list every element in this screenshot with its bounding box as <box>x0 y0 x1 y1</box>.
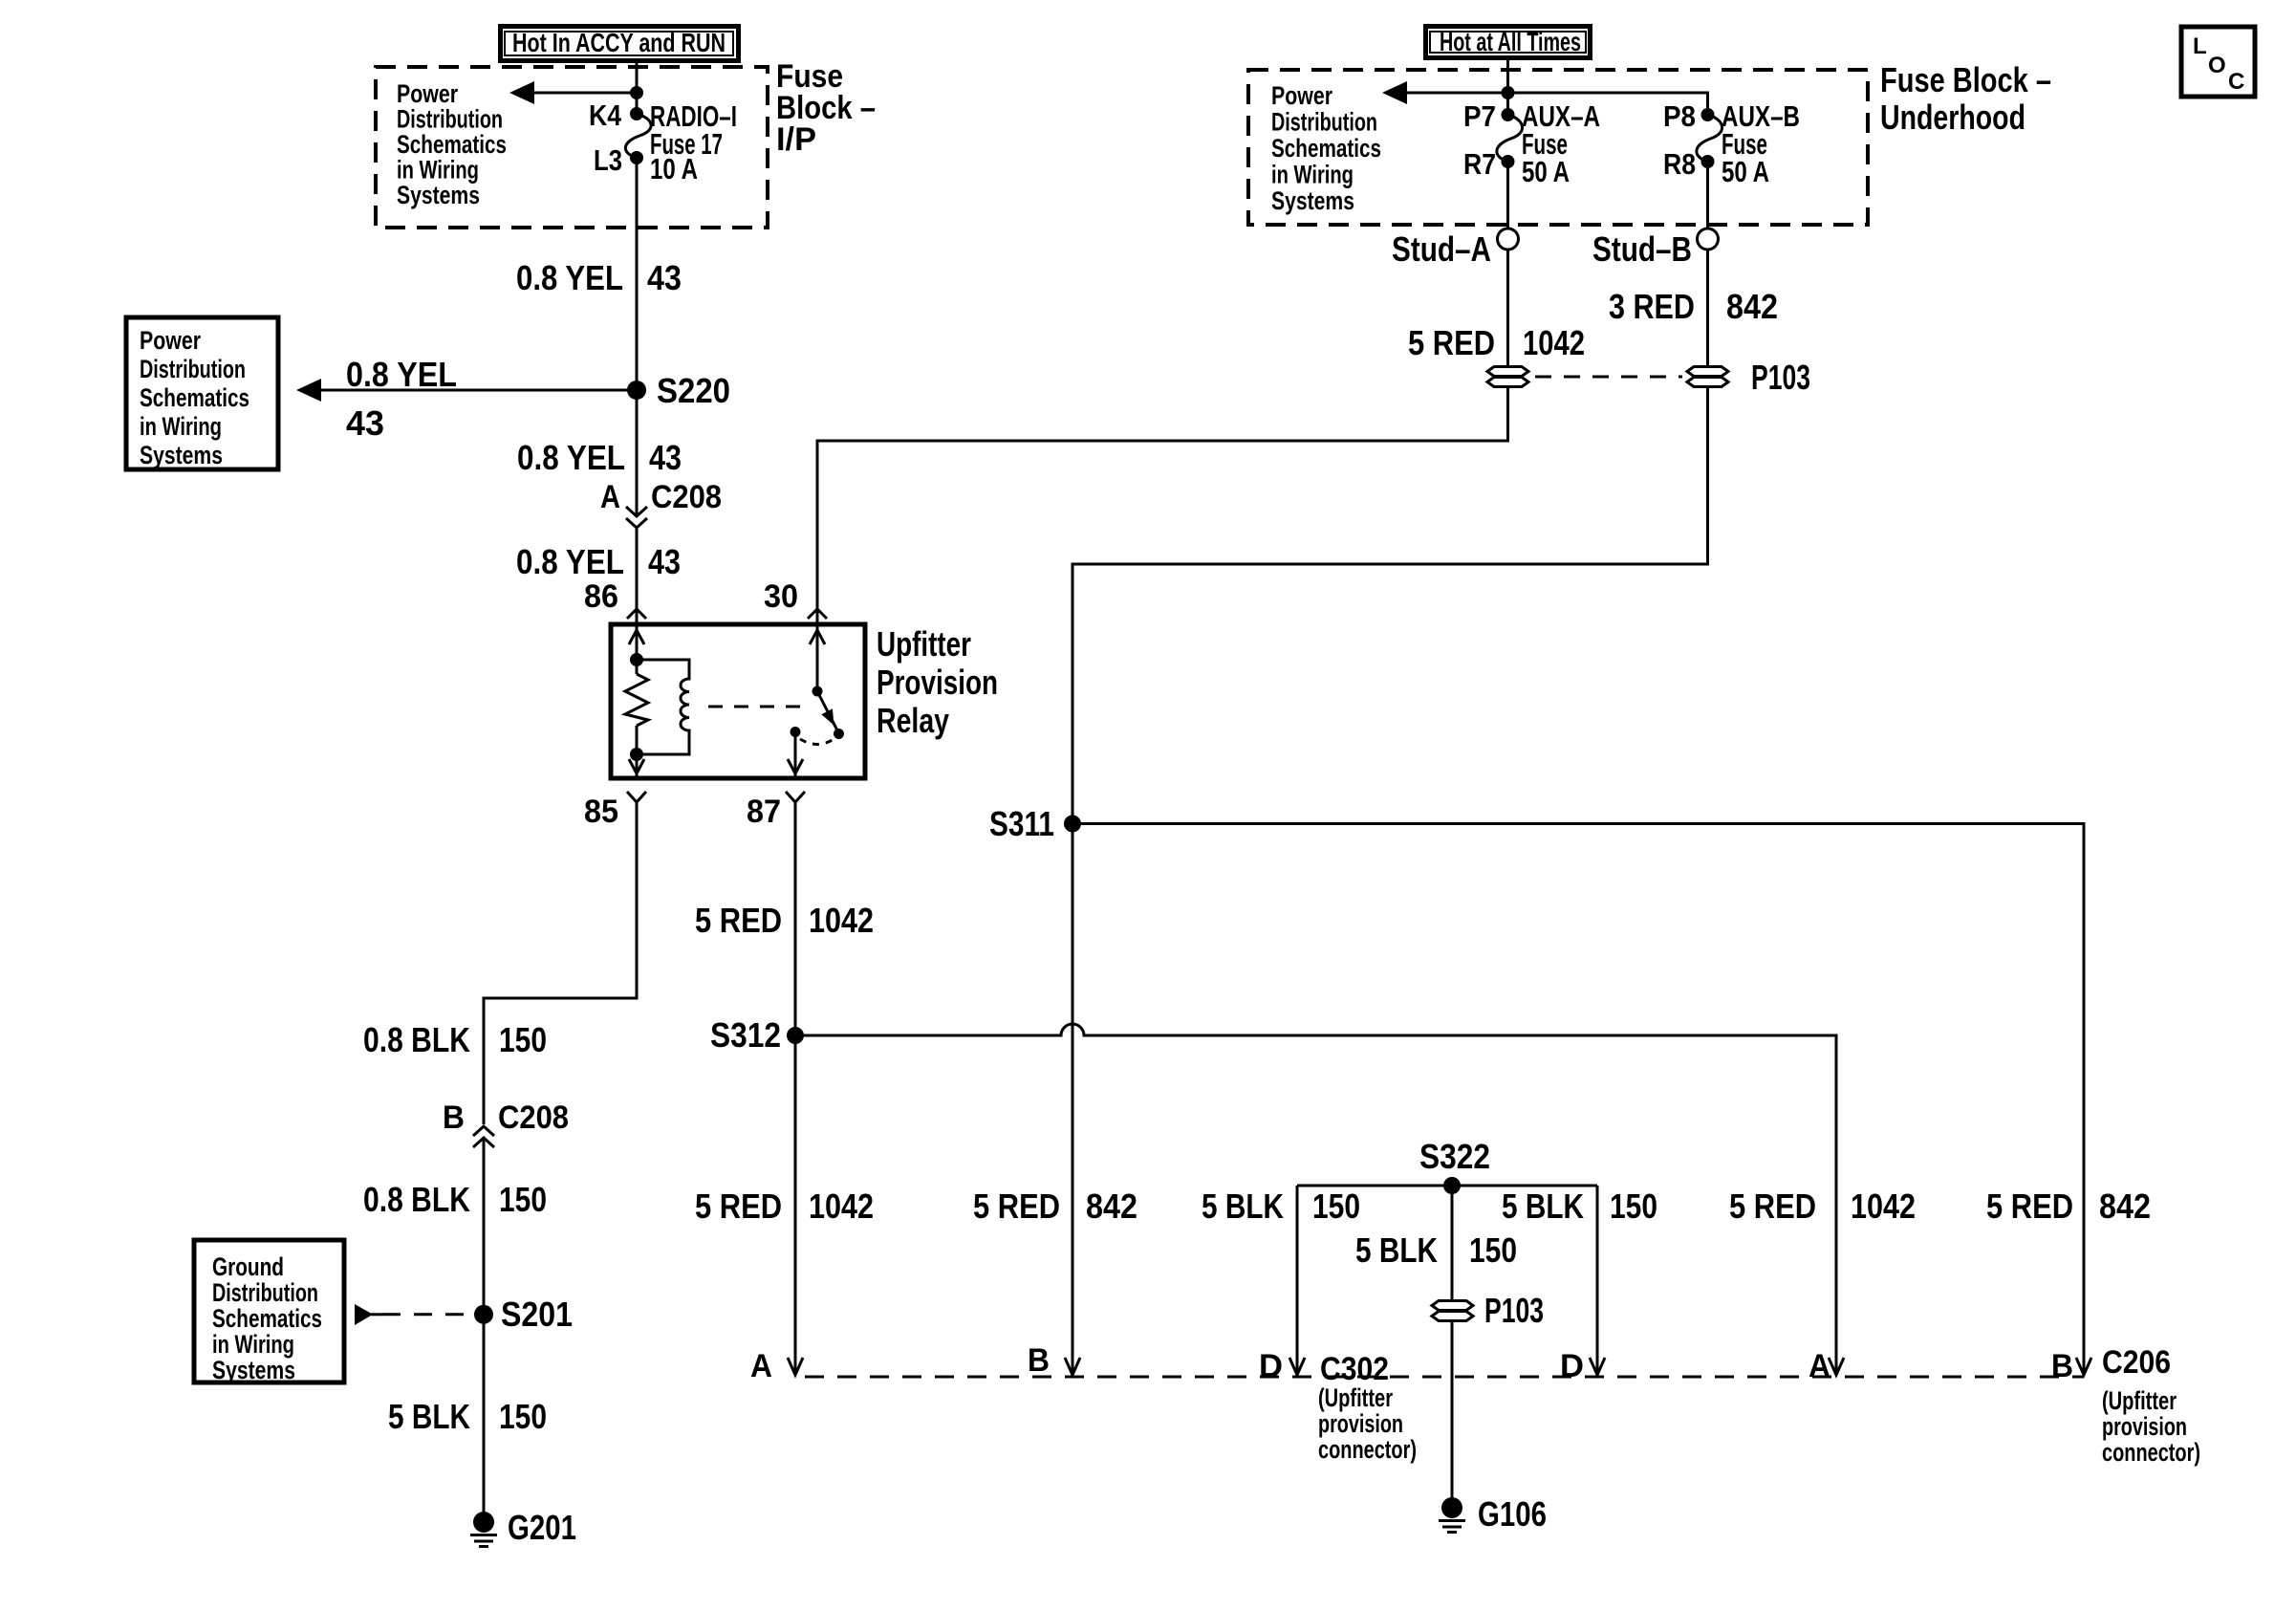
wire 5 RED 1042 from S312 to C302 pin A <box>794 1035 797 1373</box>
svg-text:842: 842 <box>1086 1186 1137 1226</box>
svg-text:C208: C208 <box>498 1099 569 1136</box>
svg-text:Stud–B: Stud–B <box>1592 229 1692 269</box>
svg-text:I/P: I/P <box>776 121 816 158</box>
pin 86 connector chevron <box>627 609 646 619</box>
node S322 <box>1443 1177 1461 1194</box>
grommet P103 (bottom) <box>1432 1301 1473 1321</box>
wire arrow to power distribution (internal) <box>531 92 637 95</box>
svg-text:3 RED: 3 RED <box>1609 287 1695 326</box>
terminal Stud-B <box>1706 162 1709 229</box>
svg-text:R8: R8 <box>1663 147 1696 181</box>
svg-text:A: A <box>600 479 620 515</box>
ground G201 <box>470 1508 576 1547</box>
wire S322 ground tee <box>1297 1185 1597 1187</box>
node junction dot at arrow takeoff <box>1502 86 1515 99</box>
svg-text:P8: P8 <box>1663 99 1696 133</box>
svg-text:1042: 1042 <box>809 1186 874 1226</box>
wire from Hot at All Times down <box>1506 58 1509 115</box>
svg-text:842: 842 <box>2099 1186 2151 1226</box>
grommet P103 (left half) <box>1487 367 1528 387</box>
node S220 <box>627 381 646 400</box>
svg-text:P103: P103 <box>1751 358 1810 397</box>
wire P103 left down to relay pin 30 <box>817 388 1508 624</box>
svg-text:86: 86 <box>584 578 618 615</box>
wire arrow to power distribution (internal, underhood) <box>1404 92 1508 95</box>
svg-text:S312: S312 <box>710 1015 781 1055</box>
svg-text:Systems: Systems <box>397 181 480 209</box>
svg-text:5 BLK: 5 BLK <box>1202 1186 1284 1226</box>
svg-text:Hot at All Times: Hot at All Times <box>1440 27 1581 56</box>
svg-text:43: 43 <box>648 542 681 581</box>
svg-text:5 RED: 5 RED <box>973 1186 1060 1226</box>
svg-text:50 A: 50 A <box>1522 155 1570 188</box>
svg-text:S220: S220 <box>657 371 730 410</box>
svg-text:Schematics: Schematics <box>212 1304 322 1333</box>
svg-text:P103: P103 <box>1484 1291 1544 1330</box>
svg-text:in Wiring: in Wiring <box>140 412 222 441</box>
relay box Upfitter Provision Relay <box>611 624 865 778</box>
svg-text:D: D <box>1259 1348 1283 1384</box>
svg-text:Stud–A: Stud–A <box>1392 229 1491 269</box>
fuse block underhood dashed box <box>1248 70 1868 225</box>
relay resistor zigzag <box>625 674 648 726</box>
node S311 <box>1064 816 1081 833</box>
svg-text:P7: P7 <box>1463 99 1496 133</box>
svg-text:Distribution: Distribution <box>212 1278 318 1307</box>
svg-text:Systems: Systems <box>212 1356 295 1384</box>
svg-text:connector): connector) <box>2102 1438 2200 1467</box>
svg-text:O: O <box>2208 53 2226 78</box>
note Power Distribution Schematics in Wiring Systems (I/P box) <box>397 79 507 209</box>
svg-text:provision: provision <box>2102 1412 2187 1441</box>
svg-text:5 RED: 5 RED <box>1729 1186 1816 1226</box>
wire 5 BLK 150 from S201 to G201 <box>483 1314 486 1515</box>
svg-text:B: B <box>443 1099 465 1136</box>
svg-text:5 RED: 5 RED <box>695 901 782 940</box>
svg-text:Distribution: Distribution <box>1271 108 1377 137</box>
svg-text:1042: 1042 <box>809 901 874 940</box>
svg-text:Fuse Block –: Fuse Block – <box>1880 60 2051 99</box>
solid box Power Distribution Schematics in Wiring Systems <box>126 317 278 469</box>
fuse RADIO-I Fuse 17 10 A (terminals K4/L3) <box>630 107 643 120</box>
wire 3 RED 842 from Stud-B to P103 <box>1706 250 1709 365</box>
svg-text:Hot In ACCY and RUN: Hot In ACCY and RUN <box>512 28 726 57</box>
svg-text:842: 842 <box>1726 287 1778 326</box>
wire 0.8 YEL 43 from fuse to S220 <box>636 158 639 390</box>
wire from relay pin 85 to ground chain <box>484 802 637 1124</box>
svg-text:C: C <box>2228 69 2244 95</box>
svg-text:Systems: Systems <box>140 441 223 469</box>
svg-text:43: 43 <box>649 438 682 477</box>
svg-text:0.8 YEL: 0.8 YEL <box>517 438 625 477</box>
svg-text:A: A <box>750 1348 772 1384</box>
svg-text:provision: provision <box>1318 1409 1403 1438</box>
svg-text:85: 85 <box>584 794 618 830</box>
wire S311 branch to C206 pin B <box>1072 824 2084 1374</box>
svg-text:B: B <box>1028 1342 1050 1379</box>
svg-text:50 A: 50 A <box>1722 155 1769 188</box>
wire S312 branch to C206 pin A (with hop over 842 wire) <box>795 1024 1836 1373</box>
svg-text:C208: C208 <box>651 479 722 515</box>
wire 0.8 YEL 43 from C208 to relay pin 86 <box>636 528 639 624</box>
svg-text:A: A <box>1809 1348 1830 1384</box>
svg-text:0.8 YEL: 0.8 YEL <box>516 542 624 581</box>
svg-text:0.8 YEL: 0.8 YEL <box>346 355 457 394</box>
pin 87 connector chevron <box>786 792 805 802</box>
svg-text:150: 150 <box>1610 1186 1657 1226</box>
solid box Ground Distribution Schematics in Wiring Systems <box>194 1240 344 1384</box>
svg-text:5 RED: 5 RED <box>1408 323 1495 362</box>
svg-text:Power: Power <box>140 326 201 355</box>
svg-text:C302: C302 <box>1320 1351 1389 1387</box>
svg-text:Relay: Relay <box>877 701 949 740</box>
svg-text:Schematics: Schematics <box>140 383 249 412</box>
dashed wire from ground distribution box to S201 <box>355 1304 373 1325</box>
svg-text:Underhood: Underhood <box>1880 98 2025 137</box>
relay switch arm with arrowhead <box>817 691 837 730</box>
svg-text:30: 30 <box>764 578 798 615</box>
fuse AUX-B Fuse 50 A (terminals P8/R8) <box>1701 108 1715 121</box>
relay switch contact (pin 87 internal) <box>791 727 801 737</box>
fuse AUX-A Fuse 50 A (terminals P7/R7) <box>1502 108 1515 121</box>
wire 0.8 YEL 43 below S220 <box>636 390 639 514</box>
dashed link between P103 halves <box>1535 376 1682 379</box>
wire P103 right down to S311 branch <box>1072 388 1708 1373</box>
label C206 (Upfitter provision connector) <box>2102 1344 2200 1467</box>
relay actuation dashed link <box>708 706 812 708</box>
svg-text:Power: Power <box>397 79 458 108</box>
svg-text:5 BLK: 5 BLK <box>1502 1186 1584 1226</box>
svg-text:0.8 BLK: 0.8 BLK <box>363 1020 470 1059</box>
fuse block I/P dashed box <box>376 67 768 228</box>
relay coil branch wire (pin 86 internal) <box>636 626 639 674</box>
grommet P103 (right half) <box>1687 367 1728 387</box>
svg-text:5 BLK: 5 BLK <box>388 1397 470 1436</box>
wire 0.8 YEL 43 arrow from S220 to power distribution box <box>319 389 637 392</box>
terminal Stud-A <box>1498 229 1519 250</box>
svg-text:Distribution: Distribution <box>397 105 503 134</box>
svg-text:1042: 1042 <box>1523 323 1585 362</box>
svg-text:C206: C206 <box>2102 1344 2171 1381</box>
svg-text:Systems: Systems <box>1271 186 1354 215</box>
svg-text:150: 150 <box>1312 1186 1360 1226</box>
svg-text:S201: S201 <box>501 1295 573 1334</box>
LOC legend box <box>2181 27 2255 97</box>
svg-text:5 BLK: 5 BLK <box>1355 1230 1438 1270</box>
wire 5 BLK 150 left leg to C302 pin D <box>1296 1186 1299 1373</box>
pin 85 internal arrow <box>629 759 644 773</box>
connector arrow D (C302) <box>1289 1358 1305 1375</box>
svg-text:0.8 BLK: 0.8 BLK <box>363 1180 470 1219</box>
svg-text:(Upfitter: (Upfitter <box>2102 1386 2177 1415</box>
ground G106 <box>1439 1494 1547 1534</box>
svg-text:5 RED: 5 RED <box>1986 1186 2073 1226</box>
svg-text:0.8 YEL: 0.8 YEL <box>516 258 623 297</box>
wire P103 to G106 <box>1451 1322 1454 1501</box>
svg-text:G106: G106 <box>1478 1494 1547 1534</box>
svg-text:(Upfitter: (Upfitter <box>1318 1383 1393 1412</box>
wire 5 RED 1042 from relay pin 87 to S312 <box>794 802 797 1035</box>
svg-text:connector): connector) <box>1318 1435 1417 1464</box>
pin 30 connector chevron <box>808 609 827 619</box>
wire branch to AUX-B fuse <box>1508 93 1708 115</box>
wire R7 to Stud-A <box>1506 162 1509 229</box>
svg-text:10 A: 10 A <box>650 152 698 185</box>
svg-text:5 RED: 5 RED <box>695 1186 782 1226</box>
wire from Hot In ACCY down into fuse block <box>636 58 639 114</box>
dashed connector line C302/C206 <box>805 1376 2084 1379</box>
note Power Distribution Schematics in Wiring Systems (underhood box) <box>1271 81 1381 215</box>
svg-text:Schematics: Schematics <box>1271 134 1381 163</box>
connector arrow D (C206) <box>1590 1358 1605 1375</box>
svg-text:87: 87 <box>747 794 781 830</box>
svg-text:Power: Power <box>1271 81 1332 110</box>
svg-text:B: B <box>2051 1348 2073 1384</box>
svg-text:K4: K4 <box>589 98 622 132</box>
svg-text:L: L <box>2193 33 2207 59</box>
label Fuse Block - Underhood <box>1880 60 2051 137</box>
svg-text:150: 150 <box>1469 1230 1517 1270</box>
svg-text:Schematics: Schematics <box>397 130 507 159</box>
connector arrow B (C206) <box>2076 1358 2091 1375</box>
svg-text:D: D <box>1560 1348 1584 1384</box>
connector arrow A (C302) <box>788 1358 803 1375</box>
svg-text:G201: G201 <box>508 1508 576 1547</box>
node S201 <box>474 1305 493 1324</box>
node S312 <box>787 1027 804 1044</box>
svg-text:S322: S322 <box>1419 1137 1490 1176</box>
label C302 (Upfitter provision connector) <box>1318 1351 1417 1464</box>
relay coil (winding) <box>637 660 689 754</box>
svg-text:in Wiring: in Wiring <box>397 156 479 185</box>
svg-text:150: 150 <box>499 1020 547 1059</box>
relay switch common (pin 30 internal) <box>816 626 819 690</box>
caption box "Hot In ACCY and RUN" <box>501 27 739 61</box>
svg-text:S311: S311 <box>989 804 1054 843</box>
svg-text:Distribution: Distribution <box>140 355 246 383</box>
svg-text:43: 43 <box>647 258 682 297</box>
node junction dot at arrow takeoff <box>630 86 643 99</box>
svg-text:in Wiring: in Wiring <box>212 1330 294 1359</box>
svg-text:1042: 1042 <box>1851 1186 1916 1226</box>
svg-text:Upfitter: Upfitter <box>877 624 971 664</box>
svg-text:43: 43 <box>346 403 384 443</box>
pin 85 connector chevron <box>627 792 646 802</box>
connector arrow B (C302) <box>1065 1358 1080 1375</box>
wire 5 BLK 150 center leg from S322 to P103 <box>1451 1186 1454 1299</box>
svg-text:Provision: Provision <box>877 663 998 702</box>
svg-text:Ground: Ground <box>212 1252 284 1281</box>
label Fuse Block - I/P <box>776 58 876 158</box>
svg-text:R7: R7 <box>1463 147 1496 181</box>
wire 0.8 BLK 150 below C208 <box>483 1138 486 1314</box>
wire 5 RED 1042 from Stud-A to P103 <box>1506 250 1509 365</box>
caption box "Hot at All Times" <box>1426 27 1591 58</box>
svg-text:150: 150 <box>499 1180 547 1219</box>
svg-text:L3: L3 <box>594 143 622 177</box>
svg-text:in Wiring: in Wiring <box>1271 161 1354 189</box>
wire 5 BLK 150 right leg to C206 pin D <box>1596 1186 1599 1373</box>
svg-text:150: 150 <box>499 1397 547 1436</box>
connector arrow A (C206) <box>1829 1358 1844 1375</box>
